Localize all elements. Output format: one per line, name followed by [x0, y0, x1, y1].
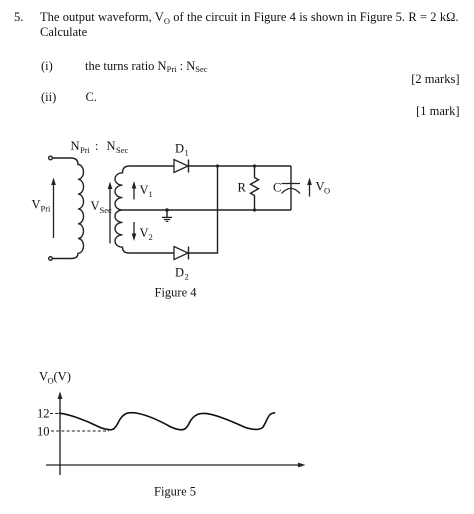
svg-text:2: 2	[185, 272, 189, 282]
svg-text:Pri: Pri	[41, 204, 52, 214]
svg-text:D: D	[175, 266, 184, 280]
svg-text:Sec: Sec	[100, 205, 113, 215]
svg-text:V: V	[140, 226, 149, 240]
svg-text:(V): (V)	[54, 370, 71, 384]
svg-text:Figure 4: Figure 4	[155, 286, 198, 300]
svg-text:Sec: Sec	[116, 145, 129, 155]
svg-text:12: 12	[37, 407, 50, 421]
svg-text:R: R	[238, 181, 247, 195]
svg-text:10: 10	[37, 425, 50, 439]
svg-text::: :	[95, 139, 98, 153]
svg-text:C: C	[273, 181, 281, 195]
svg-text:N: N	[71, 139, 80, 153]
svg-text:Pri: Pri	[80, 145, 91, 155]
svg-text:V: V	[32, 198, 41, 212]
svg-text:O: O	[324, 186, 330, 196]
svg-text:Figure 5: Figure 5	[154, 485, 196, 499]
svg-text:V: V	[140, 183, 149, 197]
svg-text:N: N	[107, 139, 116, 153]
svg-text:V: V	[91, 199, 100, 213]
svg-text:1: 1	[185, 148, 189, 158]
svg-text:1: 1	[149, 189, 153, 199]
svg-text:2: 2	[149, 232, 153, 242]
svg-text:D: D	[175, 142, 184, 156]
